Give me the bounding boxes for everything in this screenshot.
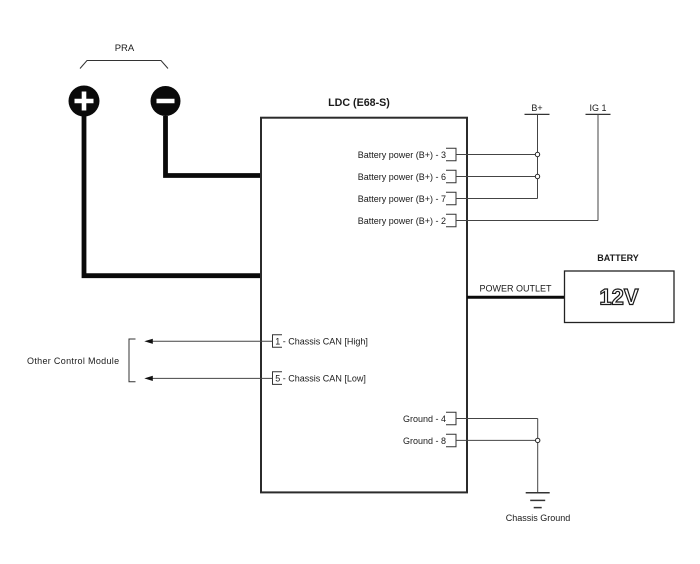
wire ground vertical: [537, 419, 539, 493]
wire pin 7 to B+ line: [456, 198, 538, 200]
wire ground 4: [456, 418, 538, 420]
wire pin 3 to B+: [456, 154, 538, 156]
svg-text:LDC (E68-S): LDC (E68-S): [328, 97, 390, 109]
wire ground 8: [456, 439, 538, 441]
wire power outlet: [467, 296, 565, 299]
pin 1 bracket: [273, 335, 283, 348]
Other Control Module bracket: [129, 339, 136, 382]
wire B+ vertical: [537, 114, 539, 198]
battery 12V box: [565, 271, 675, 323]
svg-text:5 - Chassis CAN [Low]: 5 - Chassis CAN [Low]: [275, 374, 366, 384]
svg-text:Ground - 4: Ground - 4: [403, 414, 446, 424]
svg-text:1 - Chassis CAN [High]: 1 - Chassis CAN [High]: [275, 337, 368, 347]
svg-text:Ground - 8: Ground - 8: [403, 436, 446, 446]
pin 8 bracket: [446, 434, 456, 446]
svg-text:Chassis Ground: Chassis Ground: [506, 513, 571, 523]
battery positive terminal: [69, 86, 100, 117]
svg-text:Battery power (B+) - 3: Battery power (B+) - 3: [358, 150, 446, 160]
svg-text:BATTERY: BATTERY: [597, 253, 639, 263]
svg-text:12V: 12V: [599, 285, 638, 310]
pin 6 bracket: [446, 170, 456, 182]
wire CAN High: [151, 340, 273, 342]
svg-text:Battery power (B+) - 6: Battery power (B+) - 6: [358, 172, 446, 182]
LDC (E68-S) module box: [261, 118, 467, 493]
svg-text:POWER OUTLET: POWER OUTLET: [480, 284, 553, 294]
pin 4 bracket: [446, 412, 456, 424]
svg-text:Battery power (B+) - 7: Battery power (B+) - 7: [358, 194, 446, 204]
arrowhead CAN Low: [144, 376, 153, 381]
wire pin 6 to B+: [456, 176, 538, 178]
svg-text:IG 1: IG 1: [589, 103, 606, 113]
junction at ground 8: [536, 438, 540, 442]
wire IG 1 vertical: [597, 114, 599, 220]
junction at pin 3: [535, 152, 539, 156]
node B+ terminal: [525, 103, 550, 114]
pin 5 bracket: [273, 372, 283, 385]
PRA bracket: [80, 61, 168, 69]
svg-text:PRA: PRA: [115, 43, 135, 54]
battery negative terminal: [151, 86, 181, 116]
wire CAN Low: [151, 377, 273, 379]
junction at pin 6: [535, 174, 539, 178]
pin 2 bracket: [446, 214, 456, 226]
pin 3 bracket: [446, 148, 456, 160]
pin 7 bracket: [446, 192, 456, 204]
wire positive to LDC: [84, 116, 261, 276]
svg-text:Other Control Module: Other Control Module: [27, 356, 119, 366]
svg-text:B+: B+: [531, 103, 542, 113]
wire pin 2 to IG 1: [456, 220, 598, 222]
svg-text:Battery power (B+) - 2: Battery power (B+) - 2: [358, 216, 446, 226]
arrowhead CAN High: [144, 339, 153, 344]
node IG 1 terminal: [586, 103, 611, 114]
chassis ground symbol: [526, 493, 550, 508]
wire negative to LDC: [166, 116, 262, 176]
